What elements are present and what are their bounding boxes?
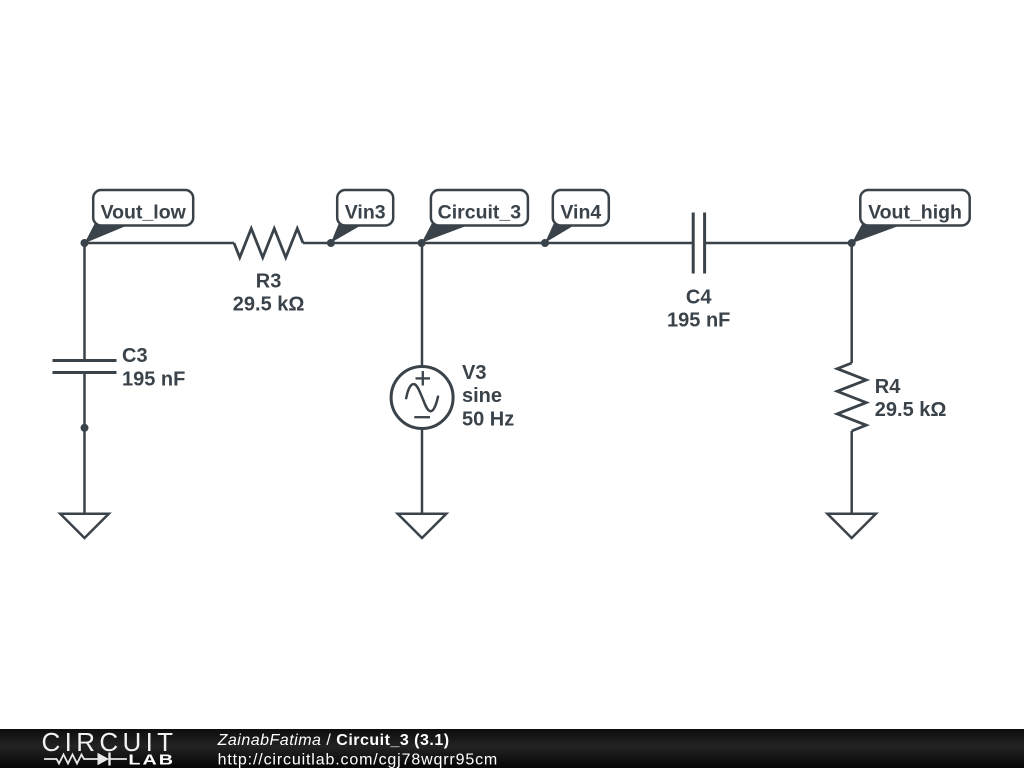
svg-text:195 nF: 195 nF [122,368,185,390]
svg-text:195 nF: 195 nF [667,310,730,332]
flag box Vout_high [860,190,969,226]
node dot Vout_low [81,239,89,247]
footer bar [0,729,1024,768]
wire main horizontal left segment [85,242,235,245]
wire from C4 to Vout_high node [705,242,852,245]
wire right branch lower [850,431,853,513]
svg-text:Vin4: Vin4 [560,202,601,224]
svg-text:V3: V3 [462,362,486,384]
svg-text:ZainabFatima / Circuit_3 (3.1): ZainabFatima / Circuit_3 (3.1) [217,732,450,749]
flag box Vout_low [93,190,193,226]
V3 circle body [391,367,453,429]
svg-text:R4: R4 [875,376,901,398]
wire from R3 to C4 [303,242,693,245]
capacitor C3 [53,361,117,373]
capacitor C3 top plate [53,359,117,362]
wire left branch upper [83,243,86,361]
ground middle [398,514,447,538]
capacitor C4 left plate [692,213,695,274]
flag tail Vout_high [852,224,904,243]
node dot Vin3 [327,239,335,247]
ground left [60,514,109,538]
flag box Vin3 [337,190,393,226]
V3 minus sign [414,416,430,418]
svg-text:Vout_high: Vout_high [868,202,962,224]
svg-text:LAB: LAB [128,751,175,768]
svg-text:sine: sine [462,385,502,407]
voltage source V3 [391,367,453,429]
capacitor C4 [693,213,704,274]
svg-text:R3: R3 [256,270,282,292]
ground right [827,514,876,538]
svg-text:http://circuitlab.com/cgj78wqr: http://circuitlab.com/cgj78wqrr95cm [218,752,499,768]
flag tail Vin3 [331,223,365,243]
node dot Vout_high [848,239,856,247]
flag tail Vin4 [545,223,578,243]
V3 plus sign [416,377,431,379]
flag box Circuit_3 [431,190,528,226]
svg-text:29.5 kΩ: 29.5 kΩ [875,399,947,421]
logo diode triangle [98,753,110,765]
svg-text:Vout_low: Vout_low [101,202,187,224]
svg-text:Circuit_3: Circuit_3 [438,202,522,224]
capacitor C3 bottom plate [53,371,117,374]
node dot Circuit_3 [418,239,426,247]
resistor R3 [234,229,303,258]
flag tail Vout_low [85,223,134,243]
flag box Vin4 [553,190,609,226]
svg-text:C4: C4 [686,287,712,309]
resistor R4 [837,363,866,431]
wire middle branch upper [421,243,424,367]
flag tail Circuit_3 [422,223,474,243]
svg-text:29.5 kΩ: 29.5 kΩ [233,294,305,316]
logo resistor-diode squiggle [44,753,127,766]
node dot Vin4 [541,239,549,247]
wire middle branch lower [421,428,424,513]
wire right branch upper [850,243,853,363]
svg-text:Vin3: Vin3 [345,202,386,224]
wire left branch lower [83,373,86,514]
node dot left branch junction [81,424,89,432]
svg-text:C3: C3 [122,345,148,367]
svg-text:50 Hz: 50 Hz [462,408,514,430]
capacitor C4 right plate [703,213,706,274]
V3 sine wave [406,384,438,411]
